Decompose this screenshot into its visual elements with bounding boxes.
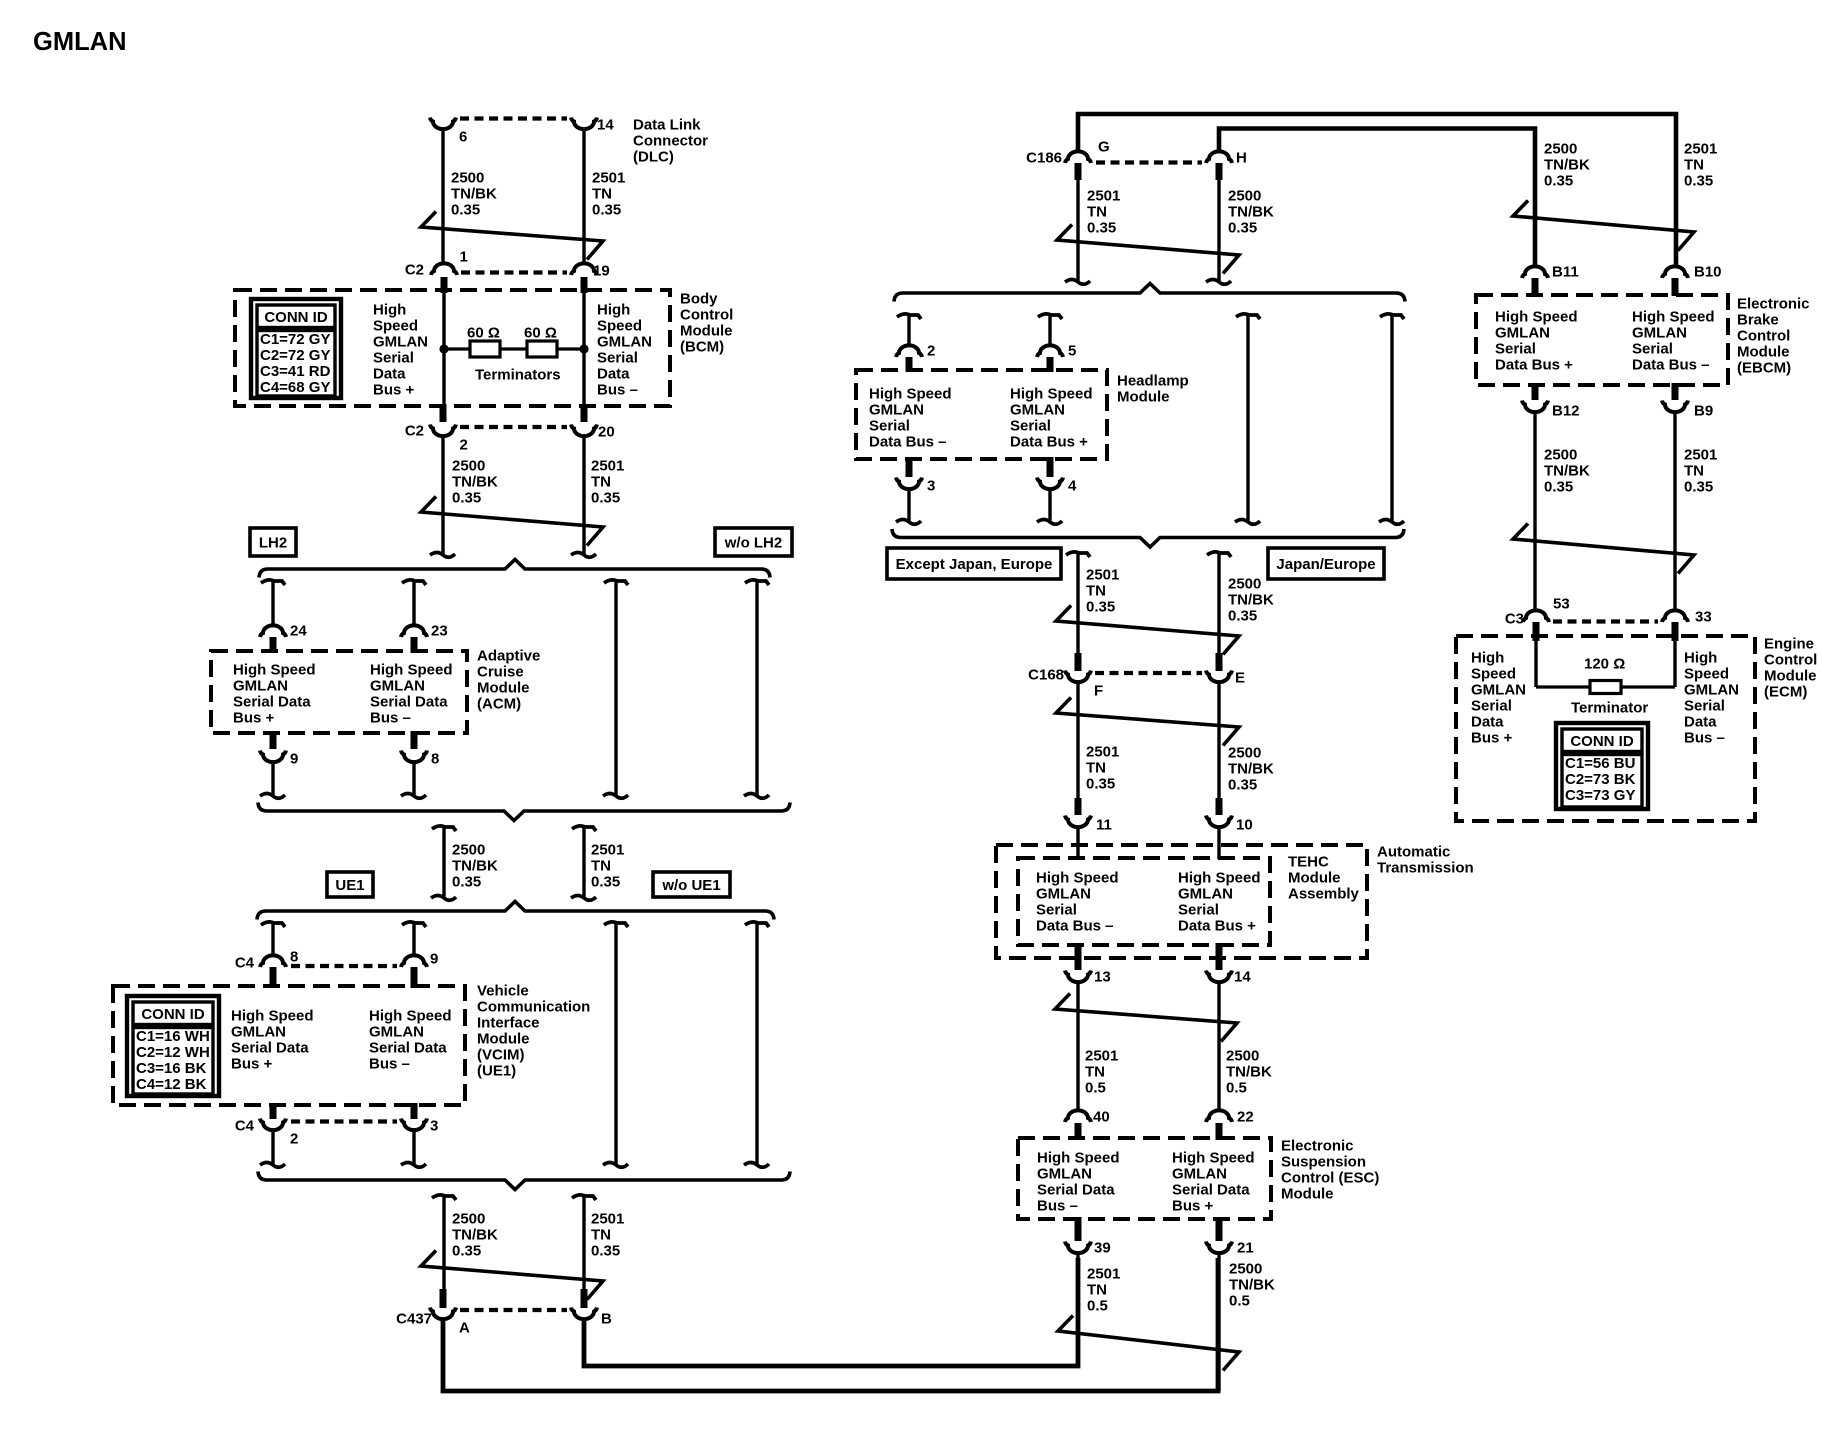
svg-text:GMLAN: GMLAN xyxy=(1172,1165,1227,1182)
connector EBCM pin B11 xyxy=(1522,266,1548,278)
stub ACM 9 xyxy=(270,731,277,749)
svg-text:Terminators: Terminators xyxy=(475,366,561,383)
wire C437 connector body (dashed) xyxy=(460,1308,567,1312)
wire end x=1392 xyxy=(1379,520,1404,525)
stub headlamp 2 xyxy=(906,357,913,372)
twisted pair marker S1 xyxy=(421,212,603,260)
wire 2501 TN xyxy=(582,828,585,897)
svg-text:C437: C437 xyxy=(396,1310,432,1327)
svg-text:Serial: Serial xyxy=(597,349,638,366)
svg-text:w/o LH2: w/o LH2 xyxy=(724,535,783,552)
table VCIM CONN ID xyxy=(127,996,219,1096)
svg-text:GMLAN: GMLAN xyxy=(1010,401,1065,418)
svg-text:(BCM): (BCM) xyxy=(680,338,724,355)
svg-text:Except Japan, Europe: Except Japan, Europe xyxy=(896,556,1053,573)
svg-text:Terminator: Terminator xyxy=(1571,699,1648,716)
svg-text:2500: 2500 xyxy=(1226,1047,1259,1064)
svg-text:TN/BK: TN/BK xyxy=(1228,591,1274,608)
stub EBCM B10 xyxy=(1672,278,1679,296)
connector EBCM pin B9 xyxy=(1662,401,1688,413)
stub headlamp 4 xyxy=(1047,457,1054,477)
connector ESC pin 22 xyxy=(1206,1110,1232,1122)
svg-text:B11: B11 xyxy=(1552,263,1579,280)
module ECM box xyxy=(1456,636,1755,821)
wire to VCIM 8 xyxy=(271,924,274,956)
brace LH2 group xyxy=(259,560,770,578)
connector VCIM pin 9 xyxy=(401,955,427,967)
svg-text:GMLAN: GMLAN xyxy=(33,28,126,56)
svg-text:1: 1 xyxy=(460,248,468,265)
stub TEHC 10 xyxy=(1216,798,1223,815)
wire 2500 TN/BK C437-A to ESC 21 xyxy=(443,1258,1218,1391)
svg-text:2500: 2500 xyxy=(452,1210,485,1227)
twisted pair marker S8 xyxy=(1058,1316,1239,1371)
brace headlamp group bottom xyxy=(892,529,1404,547)
svg-text:C4=68 GY: C4=68 GY xyxy=(260,379,330,396)
svg-text:High Speed: High Speed xyxy=(369,1007,452,1024)
stub ESC 39 xyxy=(1075,1217,1082,1241)
wire start 2501 xyxy=(1066,552,1090,557)
tag LH2 xyxy=(250,528,296,556)
svg-text:H: H xyxy=(1236,149,1247,166)
svg-text:C3=73 GY: C3=73 GY xyxy=(1565,787,1635,804)
connector TEHC pin 11 xyxy=(1065,816,1091,828)
svg-text:TN/BK: TN/BK xyxy=(1226,1063,1272,1080)
wire BCM bus + internal xyxy=(442,291,445,406)
module ACM box xyxy=(211,651,467,733)
stub BCM pin 19 xyxy=(581,277,588,293)
connector C168 pin F xyxy=(1065,671,1091,683)
module ESC box xyxy=(1018,1138,1271,1219)
svg-text:Module: Module xyxy=(1737,343,1790,360)
brace VCIM group bottom xyxy=(258,1172,790,1190)
connector EBCM pin B12 xyxy=(1522,401,1548,413)
svg-text:GMLAN: GMLAN xyxy=(1684,681,1739,698)
table BCM CONN ID xyxy=(251,299,341,398)
stub ACM 23 xyxy=(411,637,418,653)
svg-text:2501: 2501 xyxy=(591,1210,624,1227)
resistor terminator 60 ohm 2 xyxy=(527,341,557,357)
wire C2 connector body (dashed) xyxy=(461,270,567,274)
wire 2501 TN TEHC to ESC xyxy=(1076,983,1079,1111)
wire end G xyxy=(1065,280,1090,285)
connector ESC pin 21 xyxy=(1206,1242,1232,1254)
table ECM CONN ID xyxy=(1556,723,1648,809)
wire end x=757 xyxy=(744,794,769,799)
svg-text:Speed: Speed xyxy=(373,317,418,334)
svg-text:Transmission: Transmission xyxy=(1377,859,1474,876)
connector C2 pin 1 xyxy=(431,263,457,275)
connector ACM pin 23 xyxy=(401,625,427,637)
svg-text:0.35: 0.35 xyxy=(591,1242,620,1259)
svg-text:13: 13 xyxy=(1094,968,1111,985)
svg-text:TN: TN xyxy=(591,473,611,490)
wire 2500 TN/BK xyxy=(442,828,445,897)
svg-text:Bus –: Bus – xyxy=(1684,729,1725,746)
wire end x=273 xyxy=(260,1163,285,1168)
svg-text:Data Bus –: Data Bus – xyxy=(1632,356,1710,373)
svg-text:TN/BK: TN/BK xyxy=(1228,203,1274,220)
wire 2500 TN/BK below C186-H xyxy=(1217,179,1220,281)
wire start 2500 xyxy=(1207,552,1231,557)
svg-text:TN: TN xyxy=(592,185,612,202)
svg-text:E: E xyxy=(1235,669,1245,686)
svg-text:Bus +: Bus + xyxy=(231,1055,273,1072)
svg-text:Serial: Serial xyxy=(373,349,414,366)
svg-text:GMLAN: GMLAN xyxy=(233,677,288,694)
svg-text:10: 10 xyxy=(1236,816,1253,833)
svg-text:Speed: Speed xyxy=(1471,665,1516,682)
svg-text:0.5: 0.5 xyxy=(1087,1297,1108,1314)
wire DLC connector body (dashed) xyxy=(460,116,567,120)
svg-text:Module: Module xyxy=(1764,667,1817,684)
svg-text:GMLAN: GMLAN xyxy=(869,401,924,418)
connector C2 pin 2 xyxy=(430,425,456,437)
stub ESC 40 xyxy=(1075,1123,1082,1140)
svg-text:0.5: 0.5 xyxy=(1229,1292,1250,1309)
wire 2501 TN to C437-B xyxy=(582,1197,585,1290)
svg-text:(ACM): (ACM) xyxy=(477,695,521,712)
svg-text:Data: Data xyxy=(597,365,630,382)
wire end H xyxy=(1206,280,1231,285)
stub C437 B xyxy=(581,1289,588,1308)
svg-text:TN/BK: TN/BK xyxy=(1544,462,1590,479)
svg-text:0.5: 0.5 xyxy=(1226,1079,1247,1096)
svg-text:23: 23 xyxy=(431,622,448,639)
svg-text:TN: TN xyxy=(1684,462,1704,479)
svg-text:2501: 2501 xyxy=(1087,1265,1120,1282)
svg-text:Serial Data: Serial Data xyxy=(233,693,311,710)
svg-text:TN: TN xyxy=(1087,1281,1107,1298)
svg-text:Data: Data xyxy=(373,365,406,382)
svg-text:9: 9 xyxy=(290,750,298,767)
connector C186 pin G xyxy=(1065,151,1091,163)
svg-text:60 Ω: 60 Ω xyxy=(524,324,557,341)
svg-text:Serial: Serial xyxy=(1178,901,1219,918)
wire w/o UE1 rail left xyxy=(614,924,617,1164)
svg-text:B10: B10 xyxy=(1694,263,1722,280)
stub headlamp 3 xyxy=(906,457,913,477)
stub BCM pin 1 xyxy=(441,277,448,293)
svg-text:0.35: 0.35 xyxy=(452,873,481,890)
svg-text:High Speed: High Speed xyxy=(1172,1149,1255,1166)
svg-text:High Speed: High Speed xyxy=(1036,869,1119,886)
wire to ACM 23 xyxy=(412,582,415,626)
stub TEHC 11 xyxy=(1075,798,1082,815)
svg-text:Data: Data xyxy=(1471,713,1504,730)
svg-text:CONN ID: CONN ID xyxy=(1570,733,1634,750)
connector C4 pin 2 xyxy=(260,1119,286,1131)
svg-text:Data: Data xyxy=(1684,713,1717,730)
svg-text:TN/BK: TN/BK xyxy=(1228,760,1274,777)
tag Japan/Europe xyxy=(1268,548,1384,579)
svg-text:C4: C4 xyxy=(235,954,255,971)
svg-text:C2=12 WH: C2=12 WH xyxy=(136,1044,210,1061)
svg-text:Automatic: Automatic xyxy=(1377,843,1450,860)
svg-text:6: 6 xyxy=(459,128,467,145)
svg-text:High: High xyxy=(1684,649,1717,666)
svg-text:Serial Data: Serial Data xyxy=(1037,1181,1115,1198)
svg-text:High Speed: High Speed xyxy=(1495,308,1578,325)
connector headlamp pin 4 xyxy=(1037,478,1063,490)
svg-text:Data Bus +: Data Bus + xyxy=(1010,433,1088,450)
svg-text:TN: TN xyxy=(1086,582,1106,599)
connector EBCM pin B10 xyxy=(1662,266,1688,278)
svg-text:GMLAN: GMLAN xyxy=(1632,324,1687,341)
svg-text:Speed: Speed xyxy=(1684,665,1729,682)
svg-text:Vehicle: Vehicle xyxy=(477,982,529,999)
twisted pair marker S9 xyxy=(1513,201,1694,251)
stub TEHC 13 xyxy=(1075,943,1082,970)
svg-text:2500: 2500 xyxy=(1544,446,1577,463)
svg-text:TN/BK: TN/BK xyxy=(1229,1276,1275,1293)
stub ECM 53 xyxy=(1533,622,1540,641)
svg-text:Communication: Communication xyxy=(477,998,590,1015)
svg-text:19: 19 xyxy=(593,262,610,279)
svg-text:Module: Module xyxy=(680,322,733,339)
tag w/o UE1 xyxy=(653,872,730,897)
svg-text:0.5: 0.5 xyxy=(1085,1079,1106,1096)
stub TEHC 14 xyxy=(1216,943,1223,970)
wire 2500 TN/BK ESC 21 down xyxy=(1217,1254,1220,1391)
svg-text:TEHC: TEHC xyxy=(1288,853,1329,870)
wire end x=909 xyxy=(896,520,921,525)
svg-text:High Speed: High Speed xyxy=(231,1007,314,1024)
wire 2501 TN BCM to brace xyxy=(582,437,585,554)
svg-text:High Speed: High Speed xyxy=(1178,869,1261,886)
wire TEHC 11 into box xyxy=(1076,828,1079,859)
stub VCIM 2 xyxy=(270,1103,277,1119)
wire start x=414 xyxy=(402,922,426,927)
svg-text:Japan/Europe: Japan/Europe xyxy=(1276,556,1375,573)
svg-text:Module: Module xyxy=(1117,388,1170,405)
svg-text:Headlamp: Headlamp xyxy=(1117,372,1189,389)
wire start x=616 xyxy=(604,580,628,585)
svg-text:Data Link: Data Link xyxy=(633,116,701,133)
svg-text:24: 24 xyxy=(290,622,307,639)
svg-text:2500: 2500 xyxy=(1228,575,1261,592)
svg-text:120 Ω: 120 Ω xyxy=(1584,655,1625,672)
svg-text:TN/BK: TN/BK xyxy=(1544,156,1590,173)
svg-text:Data Bus –: Data Bus – xyxy=(1036,917,1114,934)
wire 2501 TN EBCM to ECM xyxy=(1673,413,1676,611)
stub C168 F xyxy=(1075,653,1082,671)
svg-text:C2: C2 xyxy=(405,422,424,439)
connector C186 pin H xyxy=(1206,151,1232,163)
svg-text:Electronic: Electronic xyxy=(1281,1137,1354,1154)
svg-text:Bus +: Bus + xyxy=(1471,729,1513,746)
svg-text:2500: 2500 xyxy=(452,457,485,474)
svg-text:High: High xyxy=(373,301,406,318)
brace headlamp group top xyxy=(894,284,1405,302)
svg-text:CONN ID: CONN ID xyxy=(264,309,328,326)
stub VCIM 3 xyxy=(411,1103,418,1119)
wire rail right xyxy=(1390,316,1393,521)
svg-text:Bus –: Bus – xyxy=(370,709,411,726)
svg-text:GMLAN: GMLAN xyxy=(1178,885,1233,902)
connector ESC pin 40 xyxy=(1065,1110,1091,1122)
tag w/o LH2 xyxy=(715,528,792,556)
connector C3 pin 33 xyxy=(1662,610,1688,622)
svg-text:Bus –: Bus – xyxy=(1037,1197,1078,1214)
svg-text:3: 3 xyxy=(430,1117,438,1134)
wire ACM 8 down xyxy=(412,763,415,795)
wire 2500 TN/BK TEHC to ESC xyxy=(1217,983,1220,1111)
svg-text:Data Bus +: Data Bus + xyxy=(1178,917,1256,934)
svg-text:(VCIM): (VCIM) xyxy=(477,1046,525,1063)
svg-text:Bus +: Bus + xyxy=(373,381,415,398)
svg-text:0.35: 0.35 xyxy=(1684,478,1713,495)
svg-text:2500: 2500 xyxy=(1544,140,1577,157)
svg-text:Serial Data: Serial Data xyxy=(370,693,448,710)
svg-text:C3=41 RD: C3=41 RD xyxy=(260,363,331,380)
wire 2501 TN to C168-F xyxy=(1076,554,1079,655)
wire ACM 9 down xyxy=(271,763,274,795)
svg-text:0.35: 0.35 xyxy=(591,873,620,890)
svg-text:60 Ω: 60 Ω xyxy=(467,324,500,341)
svg-text:Suspension: Suspension xyxy=(1281,1153,1366,1170)
svg-text:Serial: Serial xyxy=(869,417,910,434)
svg-text:Module: Module xyxy=(477,679,530,696)
svg-text:(UE1): (UE1) xyxy=(477,1062,516,1079)
svg-text:GMLAN: GMLAN xyxy=(231,1023,286,1040)
svg-text:20: 20 xyxy=(598,423,615,440)
wire bus 2501 TN top xyxy=(1078,114,1676,266)
wire bus 2500 TN/BK top xyxy=(1219,129,1535,267)
svg-text:High Speed: High Speed xyxy=(1010,385,1093,402)
svg-text:GMLAN: GMLAN xyxy=(373,333,428,350)
svg-text:21: 21 xyxy=(1237,1239,1254,1256)
svg-text:2501: 2501 xyxy=(591,457,624,474)
svg-text:GMLAN: GMLAN xyxy=(597,333,652,350)
stub ACM 8 xyxy=(411,731,418,749)
stub ESC 22 xyxy=(1216,1123,1223,1140)
twisted pair marker S3 xyxy=(421,1251,603,1300)
svg-text:TN: TN xyxy=(1085,1063,1105,1080)
wire end x=1248 xyxy=(1235,520,1260,525)
svg-text:GMLAN: GMLAN xyxy=(1495,324,1550,341)
svg-text:Electronic: Electronic xyxy=(1737,295,1810,312)
wire C168 connector body (dashed) xyxy=(1095,671,1202,675)
wire start x=1050 xyxy=(1038,314,1062,319)
svg-text:C3: C3 xyxy=(1505,610,1524,627)
connector C437 pin B xyxy=(571,1308,597,1320)
wire end 2501 xyxy=(571,553,596,558)
svg-text:2500: 2500 xyxy=(1229,1260,1262,1277)
svg-text:Serial: Serial xyxy=(1010,417,1051,434)
svg-text:(ECM): (ECM) xyxy=(1764,683,1807,700)
wire start x=273 xyxy=(261,922,285,927)
svg-text:Serial Data: Serial Data xyxy=(369,1039,447,1056)
connector TEHC pin 14 xyxy=(1206,971,1232,983)
connector C437 pin A xyxy=(430,1308,456,1320)
stub EBCM B12 xyxy=(1532,383,1539,400)
svg-text:High Speed: High Speed xyxy=(869,385,952,402)
wire C4 connector body (dashed) xyxy=(291,964,397,968)
twisted pair marker S7 xyxy=(1055,994,1237,1042)
svg-text:Bus –: Bus – xyxy=(369,1055,410,1072)
svg-text:TN: TN xyxy=(1684,156,1704,173)
wire end x=616 xyxy=(603,1163,628,1168)
svg-text:2501: 2501 xyxy=(1684,140,1717,157)
connector VCIM pin 3 xyxy=(401,1119,427,1131)
svg-text:Module: Module xyxy=(477,1030,530,1047)
connector DLC pin 14 xyxy=(571,118,597,130)
svg-text:C2=73 BK: C2=73 BK xyxy=(1565,771,1636,788)
wire ECM 33 internal xyxy=(1673,640,1676,687)
wire end x=757 xyxy=(744,1163,769,1168)
wire 2500 TN/BK to C168-E xyxy=(1217,554,1220,655)
stub C186 H xyxy=(1216,163,1223,180)
wire VCIM 3 down xyxy=(412,1131,415,1164)
svg-text:CONN ID: CONN ID xyxy=(141,1006,205,1023)
connector headlamp pin 2 xyxy=(896,345,922,357)
svg-text:0.35: 0.35 xyxy=(452,1242,481,1259)
svg-text:2: 2 xyxy=(927,342,935,359)
svg-text:A: A xyxy=(459,1319,470,1336)
connector C4 pin 8 xyxy=(260,955,286,967)
connector TEHC pin 13 xyxy=(1065,971,1091,983)
svg-text:2500: 2500 xyxy=(1228,744,1261,761)
svg-text:8: 8 xyxy=(290,948,298,965)
twisted pair marker S2 xyxy=(421,497,603,546)
connector ACM pin 9 xyxy=(260,751,286,763)
svg-text:GMLAN: GMLAN xyxy=(1471,681,1526,698)
svg-text:14: 14 xyxy=(1234,968,1251,985)
svg-text:High Speed: High Speed xyxy=(1037,1149,1120,1166)
svg-text:LH2: LH2 xyxy=(259,535,287,552)
wire to headlamp 2 xyxy=(907,316,910,346)
svg-text:3: 3 xyxy=(927,477,935,494)
svg-text:Speed: Speed xyxy=(597,317,642,334)
wire to ACM 24 xyxy=(271,582,274,626)
svg-text:2501: 2501 xyxy=(592,169,625,186)
svg-text:Cruise: Cruise xyxy=(477,663,524,680)
svg-text:11: 11 xyxy=(1096,816,1112,833)
svg-text:Bus –: Bus – xyxy=(597,381,638,398)
stub EBCM B11 xyxy=(1532,278,1539,296)
wire w/o LH2 rail right xyxy=(755,582,758,795)
svg-text:0.35: 0.35 xyxy=(1544,172,1573,189)
svg-text:C2: C2 xyxy=(405,261,424,278)
svg-text:0.35: 0.35 xyxy=(452,489,481,506)
svg-text:0.35: 0.35 xyxy=(1544,478,1573,495)
svg-text:39: 39 xyxy=(1094,1239,1111,1256)
wire to VCIM 9 xyxy=(412,924,415,956)
stub VCIM 8 xyxy=(270,967,277,988)
twisted pair marker S4 xyxy=(1057,225,1239,274)
svg-text:22: 22 xyxy=(1237,1108,1254,1125)
connector ACM pin 24 xyxy=(260,625,286,637)
svg-text:14: 14 xyxy=(597,116,614,133)
svg-text:G: G xyxy=(1098,138,1110,155)
svg-text:TN/BK: TN/BK xyxy=(452,473,498,490)
svg-text:Serial: Serial xyxy=(1036,901,1077,918)
wire terminator link xyxy=(1536,685,1675,688)
svg-text:53: 53 xyxy=(1553,595,1570,612)
svg-text:TN: TN xyxy=(1086,759,1106,776)
svg-text:TN/BK: TN/BK xyxy=(451,185,497,202)
svg-text:2500: 2500 xyxy=(451,169,484,186)
wire to headlamp 5 xyxy=(1048,316,1051,346)
svg-text:Control: Control xyxy=(1764,651,1817,668)
wire end 2500 xyxy=(431,896,456,901)
svg-text:0.35: 0.35 xyxy=(1086,775,1115,792)
svg-text:0.35: 0.35 xyxy=(1228,607,1257,624)
svg-text:C2=72 GY: C2=72 GY xyxy=(260,347,330,364)
svg-text:High Speed: High Speed xyxy=(370,661,453,678)
wire w/o LH2 rail left xyxy=(614,582,617,795)
